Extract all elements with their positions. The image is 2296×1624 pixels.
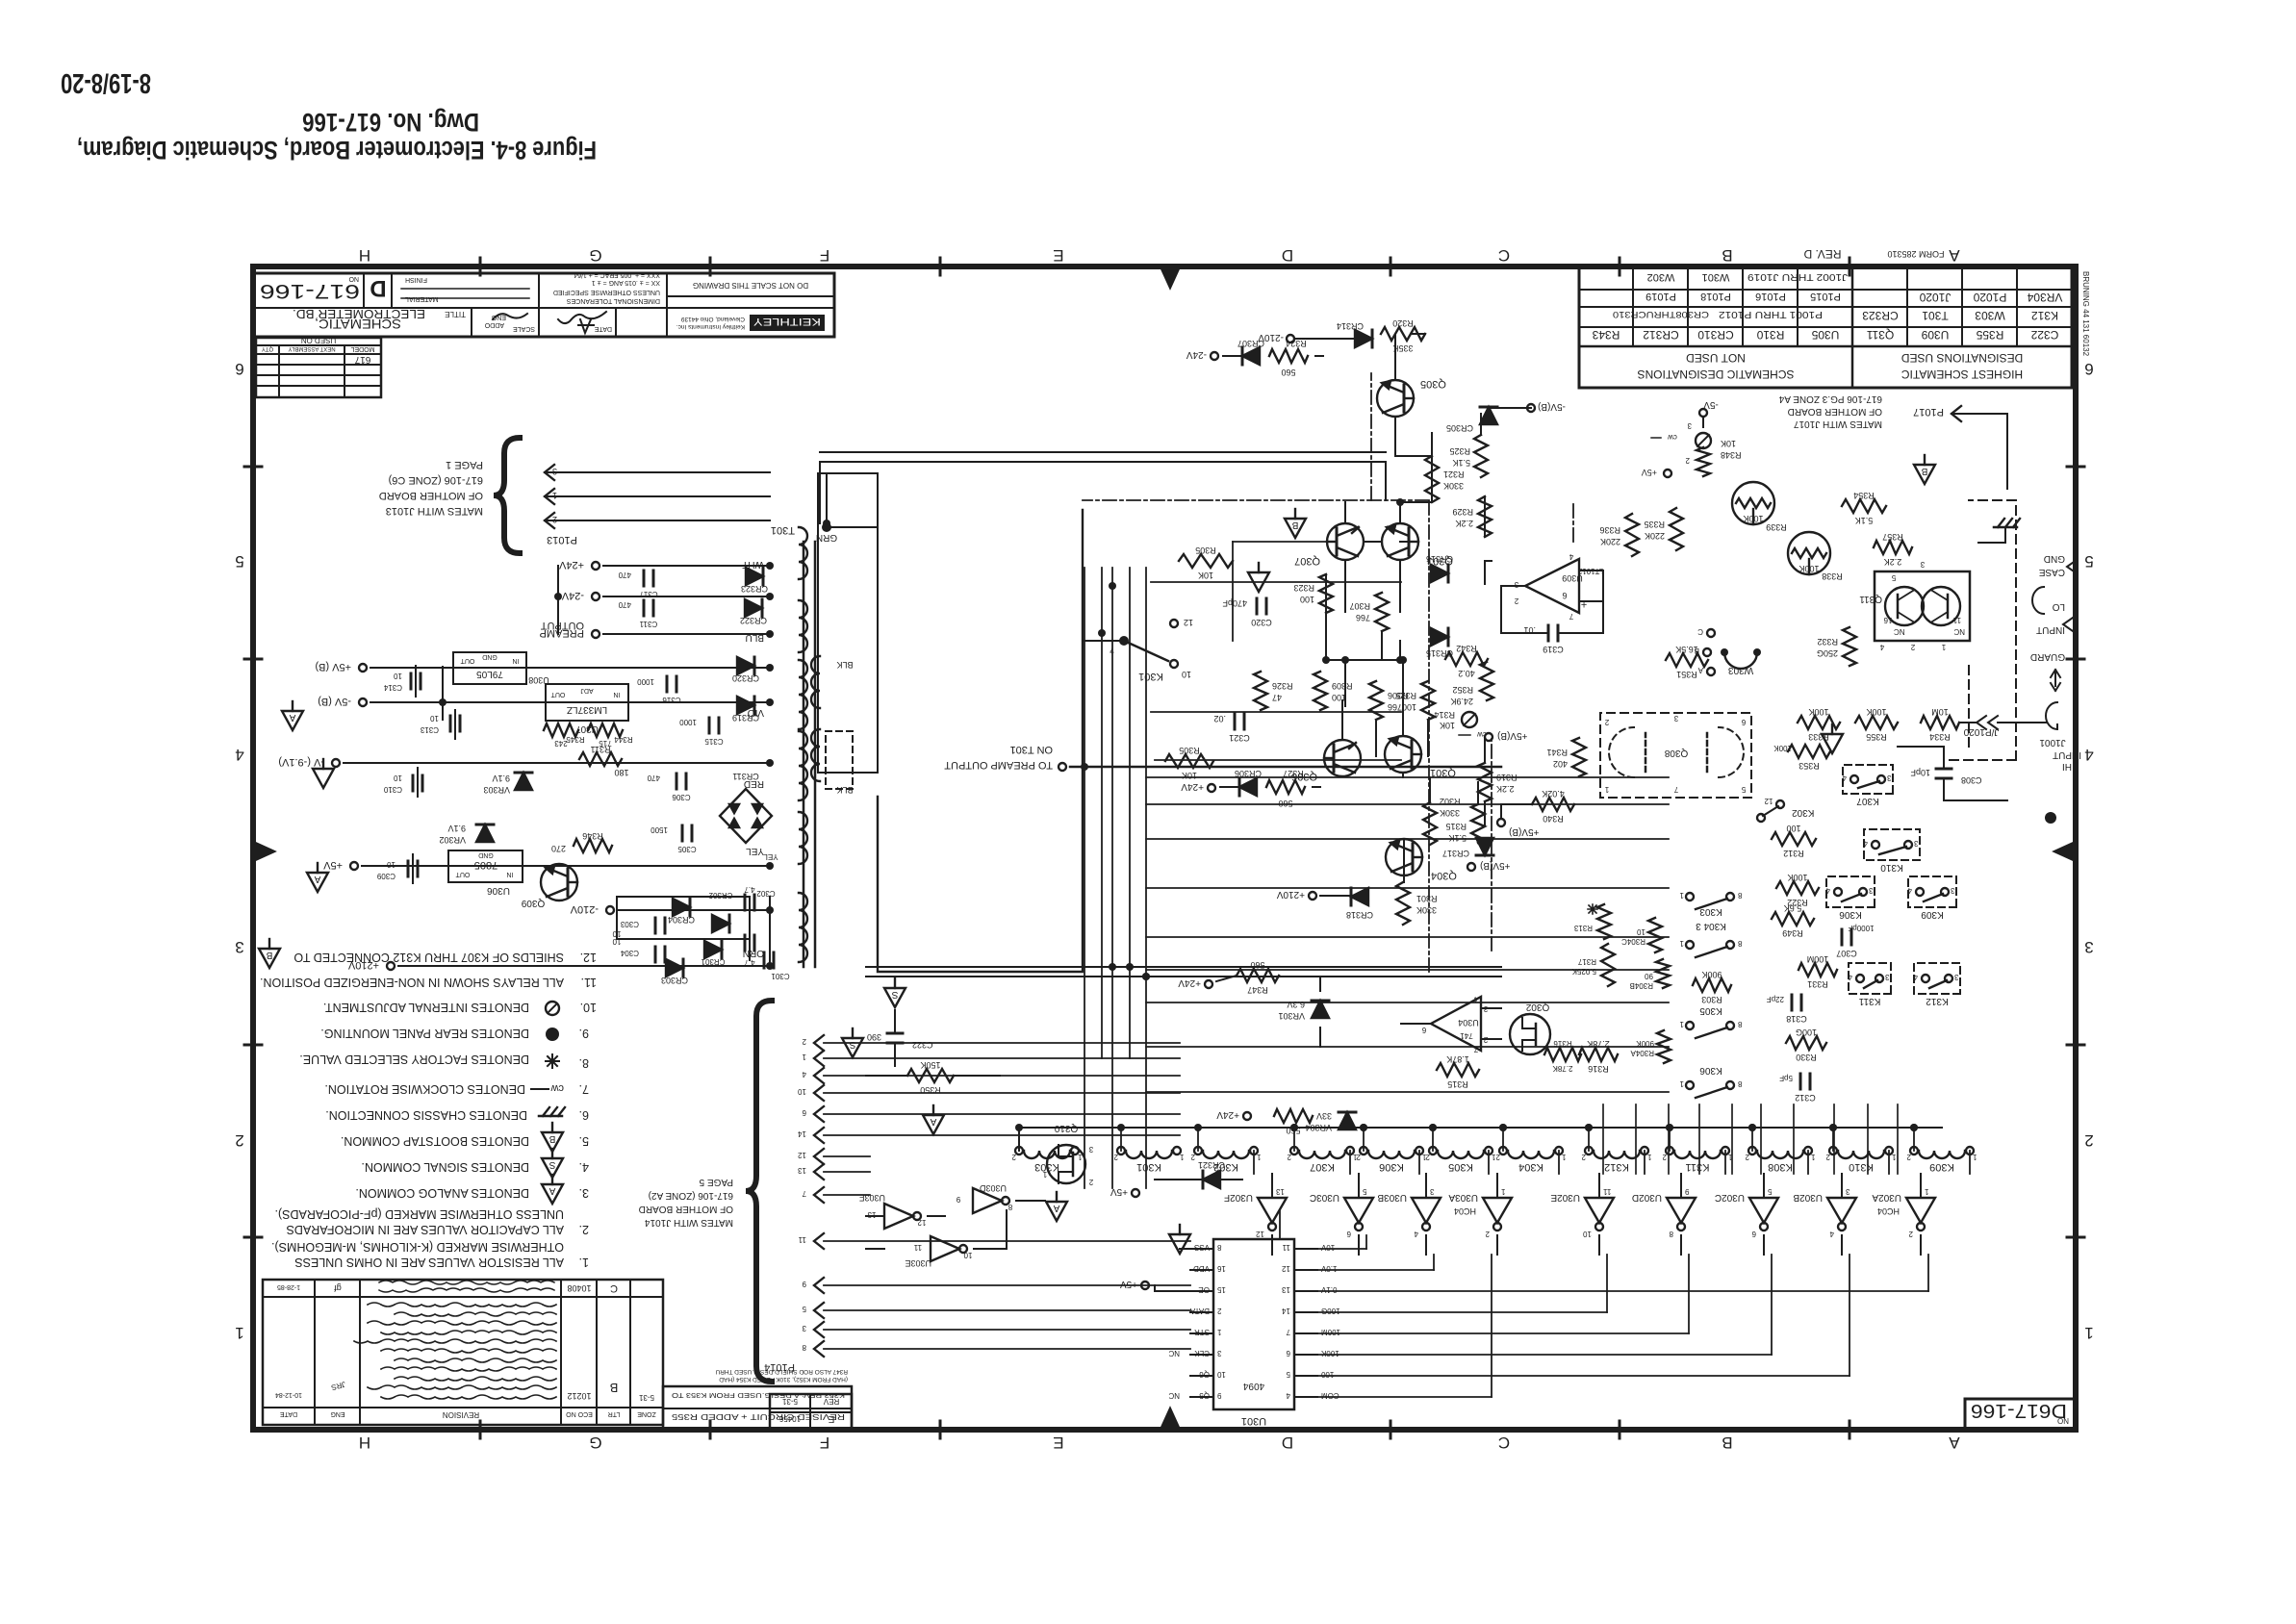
svg-text:OUT: OUT xyxy=(460,657,475,664)
relay contact K307 xyxy=(1843,765,1893,794)
term +5V(B) centre xyxy=(1485,733,1492,741)
svg-text:10K: 10K xyxy=(1721,439,1736,448)
svg-text:gf: gf xyxy=(334,1283,342,1293)
svg-text:10: 10 xyxy=(430,714,439,723)
svg-text:R312: R312 xyxy=(1783,849,1804,858)
resistor R353 xyxy=(1788,745,1830,758)
svg-text:R320: R320 xyxy=(1392,318,1414,328)
logic long wires xyxy=(1317,1396,1492,1398)
svg-text:560: 560 xyxy=(1250,960,1264,970)
svg-text:MATERIAL: MATERIAL xyxy=(405,295,439,302)
resistor R354 xyxy=(1842,499,1886,513)
svg-text:K301: K301 xyxy=(1136,1161,1161,1173)
svg-text:K312: K312 xyxy=(1604,1161,1629,1173)
svg-text:R330: R330 xyxy=(1796,1053,1817,1062)
svg-text:H: H xyxy=(359,1434,370,1452)
U303 wiring xyxy=(974,1248,1007,1250)
svg-text:1.0V: 1.0V xyxy=(1320,1264,1337,1273)
svg-text:5: 5 xyxy=(1286,1370,1290,1379)
svg-text:R348: R348 xyxy=(1721,450,1742,460)
svg-text:741: 741 xyxy=(1460,1031,1473,1040)
svg-text:2: 2 xyxy=(1825,1153,1830,1161)
svg-text:2: 2 xyxy=(1910,643,1915,651)
svg-text:100K: 100K xyxy=(1808,707,1828,717)
svg-text:W303: W303 xyxy=(1975,309,2005,322)
connector P1014 xyxy=(814,1341,824,1357)
svg-text:U306: U306 xyxy=(487,885,510,896)
CR322 CR323 C311 C317 xyxy=(745,599,762,617)
svg-text:OF MOTHER BOARD: OF MOTHER BOARD xyxy=(379,490,483,501)
connector P1013 xyxy=(494,438,520,553)
svg-text:LO: LO xyxy=(2052,601,2065,612)
svg-text:1: 1 xyxy=(1679,1079,1684,1088)
svg-text:NC: NC xyxy=(1953,627,1965,636)
svg-text:DENOTES SIGNAL COMMON.: DENOTES SIGNAL COMMON. xyxy=(361,1160,529,1174)
svg-text:5: 5 xyxy=(2084,552,2093,571)
inverter U302B xyxy=(1827,1198,1856,1223)
svg-text:9: 9 xyxy=(802,1280,806,1288)
range bus horizontals xyxy=(1146,1091,1669,1093)
svg-text:R323: R323 xyxy=(1293,583,1314,593)
svg-text:1: 1 xyxy=(1891,1153,1896,1161)
svg-text:7: 7 xyxy=(1569,612,1573,621)
resistor R307 xyxy=(1375,593,1389,631)
svg-text:ALL CAPACITOR VALUES ARE IN MI: ALL CAPACITOR VALUES ARE IN MICROFARADS xyxy=(286,1223,564,1236)
drawing number box xyxy=(1965,1399,2077,1430)
centre wiring xyxy=(1394,334,1396,380)
svg-text:C304: C304 xyxy=(620,949,639,957)
svg-text:A: A xyxy=(289,712,295,723)
svg-text:100G: 100G xyxy=(1321,1307,1340,1315)
svg-text:ADJ: ADJ xyxy=(580,687,593,694)
transformer shield enclosure xyxy=(818,473,878,773)
resistor R341 xyxy=(1572,738,1586,776)
svg-text:GUARD: GUARD xyxy=(2030,651,2065,662)
svg-text:10V: 10V xyxy=(1320,1243,1335,1252)
svg-text:330K: 330K xyxy=(1416,905,1437,915)
svg-text:9.1V: 9.1V xyxy=(492,774,510,783)
svg-text:2: 2 xyxy=(802,1037,806,1046)
svg-text:CR323: CR323 xyxy=(741,584,768,594)
svg-text:10408: 10408 xyxy=(567,1283,591,1293)
inverter U303A xyxy=(1483,1198,1512,1223)
resistor R357 xyxy=(1874,541,1912,554)
svg-text:VR303: VR303 xyxy=(483,785,510,795)
resistor R326 xyxy=(1254,672,1267,710)
svg-text:SCALE: SCALE xyxy=(513,325,535,332)
diode CR315 xyxy=(1431,628,1448,646)
resistor R313 xyxy=(1597,904,1611,939)
svg-text:1000: 1000 xyxy=(679,718,697,726)
svg-text:5: 5 xyxy=(1741,785,1746,794)
svg-text:OF MOTHER BOARD: OF MOTHER BOARD xyxy=(1788,406,1882,417)
svg-text:617-106 (ZONE A2): 617-106 (ZONE A2) xyxy=(649,1190,733,1201)
svg-text:U303A: U303A xyxy=(1448,1192,1478,1203)
zener VR301 xyxy=(1312,1001,1329,1018)
used-on table xyxy=(256,338,381,397)
svg-text:617: 617 xyxy=(354,354,370,365)
svg-text:R340: R340 xyxy=(1543,814,1564,824)
svg-text:YEL: YEL xyxy=(746,846,764,856)
svg-text:7: 7 xyxy=(1110,645,1114,654)
title block xyxy=(254,273,834,337)
svg-text:ADDO: ADDO xyxy=(484,321,504,328)
resistor R315b xyxy=(1471,804,1485,843)
connector P1014 brace xyxy=(746,1001,772,1382)
svg-text:90: 90 xyxy=(1645,972,1653,980)
svg-text:3: 3 xyxy=(1845,1187,1850,1196)
svg-text:100: 100 xyxy=(1320,1370,1334,1379)
svg-text:TO PREAMP OUTPUT: TO PREAMP OUTPUT xyxy=(944,759,1053,771)
svg-text:R325: R325 xyxy=(1395,691,1416,700)
svg-text:K308: K308 xyxy=(1768,1161,1793,1173)
svg-text:3: 3 xyxy=(1429,1187,1434,1196)
svg-text:13: 13 xyxy=(867,1210,876,1219)
svg-text:P1016: P1016 xyxy=(1755,291,1786,302)
svg-text:Q310: Q310 xyxy=(1054,1123,1078,1133)
svg-text:R310: R310 xyxy=(1756,328,1784,342)
svg-text:766: 766 xyxy=(1388,702,1402,712)
resistor R336 xyxy=(1625,514,1639,556)
svg-text:+5V: +5V xyxy=(1120,1279,1137,1289)
svg-text:KEITHLEY: KEITHLEY xyxy=(753,316,821,327)
svg-text:A: A xyxy=(1697,666,1703,674)
svg-text:470: 470 xyxy=(618,600,631,609)
svg-text:CR310: CR310 xyxy=(1697,328,1734,342)
resistor R351 xyxy=(1666,653,1708,667)
svg-text:CR308THRUCR310: CR308THRUCR310 xyxy=(1613,310,1709,319)
svg-text:10: 10 xyxy=(387,860,395,869)
svg-text:A: A xyxy=(1053,1203,1059,1213)
inverter U302E xyxy=(1585,1198,1614,1223)
svg-text:GRN: GRN xyxy=(816,532,837,543)
svg-text:330K: 330K xyxy=(1443,481,1464,491)
resistor R304C xyxy=(1648,918,1662,952)
svg-text:K311: K311 xyxy=(1686,1161,1710,1173)
svg-text:C309: C309 xyxy=(376,872,395,880)
svg-text:8.: 8. xyxy=(579,1056,589,1070)
U307 LM337 regulator xyxy=(546,684,628,721)
svg-text:16: 16 xyxy=(1883,616,1892,624)
GRN lead xyxy=(822,522,831,532)
coil-to-gate wires xyxy=(1969,1151,1971,1174)
svg-text:1000: 1000 xyxy=(637,677,654,686)
svg-text:1: 1 xyxy=(1491,1153,1495,1161)
svg-text:Q304: Q304 xyxy=(1431,870,1457,881)
svg-text:+5V (B): +5V (B) xyxy=(315,661,351,672)
dual transistor Q311 xyxy=(1875,571,1970,641)
relay contact K302b xyxy=(1776,800,1784,808)
svg-text:5: 5 xyxy=(802,1305,806,1313)
svg-text:1: 1 xyxy=(1679,1020,1684,1028)
svg-text:1: 1 xyxy=(2084,1324,2093,1342)
svg-text:4.: 4. xyxy=(579,1160,589,1174)
resistor 560 vr xyxy=(1274,1109,1313,1123)
svg-text:2: 2 xyxy=(1685,456,1690,465)
svg-text:Q305: Q305 xyxy=(1420,378,1446,390)
svg-text:+210V: +210V xyxy=(347,959,379,971)
svg-text:C320: C320 xyxy=(1251,618,1272,627)
svg-text:7.: 7. xyxy=(579,1082,589,1096)
svg-text:5: 5 xyxy=(1362,1187,1366,1196)
svg-text:12: 12 xyxy=(798,1151,806,1159)
svg-text:6: 6 xyxy=(2084,360,2093,378)
resistor R329 xyxy=(1478,496,1492,537)
svg-text:R357: R357 xyxy=(1882,532,1903,542)
svg-text:1: 1 xyxy=(1810,1153,1815,1161)
common tricom right xyxy=(1914,465,1935,484)
case gnd xyxy=(2067,560,2077,573)
svg-text:C311: C311 xyxy=(639,620,657,628)
svg-text:OF MOTHER BOARD: OF MOTHER BOARD xyxy=(639,1204,733,1214)
capacitor C308 xyxy=(1936,777,1952,780)
svg-text:REVISION: REVISION xyxy=(443,1410,479,1419)
svg-text:10: 10 xyxy=(798,1087,806,1096)
svg-text:F: F xyxy=(820,246,829,265)
svg-text:USED ON: USED ON xyxy=(301,336,337,344)
svg-text:1500: 1500 xyxy=(651,825,668,834)
svg-text:E: E xyxy=(828,1413,834,1424)
C313 C314 xyxy=(459,716,462,731)
resistor R309 xyxy=(1314,672,1327,710)
svg-text:CR320: CR320 xyxy=(732,673,759,683)
svg-text:U302E: U302E xyxy=(1550,1192,1580,1203)
resistor R316 xyxy=(1579,1048,1618,1061)
svg-text:C312: C312 xyxy=(1795,1093,1816,1103)
svg-text:U301: U301 xyxy=(1241,1415,1266,1427)
svg-text:4094: 4094 xyxy=(1242,1381,1264,1391)
svg-text:5.1K: 5.1K xyxy=(1448,833,1467,843)
svg-text:B: B xyxy=(1722,1434,1732,1452)
svg-text:2: 2 xyxy=(1662,1153,1667,1161)
svg-text:H: H xyxy=(359,246,370,265)
svg-text:F: F xyxy=(820,1434,829,1452)
svg-text:A: A xyxy=(1949,1434,1960,1452)
svg-text:8-19/8-20: 8-19/8-20 xyxy=(61,67,151,98)
svg-text:B: B xyxy=(1291,520,1298,530)
svg-text:100M: 100M xyxy=(1807,954,1829,964)
svg-text:9: 9 xyxy=(956,1195,960,1204)
svg-text:6: 6 xyxy=(1751,1230,1756,1238)
svg-text:LTR: LTR xyxy=(608,1410,621,1417)
svg-text:C: C xyxy=(1498,246,1510,265)
svg-text:10: 10 xyxy=(1583,1230,1592,1238)
svg-text:IN: IN xyxy=(507,871,514,877)
svg-text:8: 8 xyxy=(1737,939,1742,948)
svg-text:2: 2 xyxy=(1604,718,1609,726)
svg-text:S: S xyxy=(891,989,898,1000)
svg-text:10K: 10K xyxy=(1198,571,1213,580)
svg-text:K303: K303 xyxy=(1699,906,1722,917)
transistor Q301 xyxy=(1385,736,1421,773)
inverter U303C xyxy=(1344,1198,1373,1223)
svg-text:1: 1 xyxy=(1042,1170,1047,1179)
svg-text:5.1K: 5.1K xyxy=(1855,516,1874,525)
svg-text:NC: NC xyxy=(1168,1349,1180,1358)
svg-text:1: 1 xyxy=(1179,1153,1184,1161)
transistor Q307 xyxy=(1327,523,1364,560)
svg-text:S: S xyxy=(849,1039,855,1050)
svg-text:P1020: P1020 xyxy=(1973,291,2006,304)
svg-text:900K: 900K xyxy=(1701,970,1722,979)
svg-text:C: C xyxy=(610,1282,618,1294)
svg-text:R332: R332 xyxy=(1817,637,1838,647)
svg-text:3: 3 xyxy=(802,1324,806,1332)
svg-text:R351: R351 xyxy=(1676,670,1697,679)
svg-text:NOT USED: NOT USED xyxy=(1686,351,1746,365)
svg-text:ENG: ENG xyxy=(330,1410,344,1417)
svg-text:617-106 PG.3 ZONE A4: 617-106 PG.3 ZONE A4 xyxy=(1778,393,1882,404)
svg-text:-5V: -5V xyxy=(1703,399,1719,410)
svg-text:CR305: CR305 xyxy=(1446,423,1473,433)
svg-text:4: 4 xyxy=(1842,774,1847,782)
switch riser wires xyxy=(1897,1104,1899,1174)
svg-text:cw: cw xyxy=(1668,433,1677,442)
svg-text:4: 4 xyxy=(1848,973,1852,981)
op-amp U304 xyxy=(1431,997,1481,1051)
svg-text:10: 10 xyxy=(963,1251,972,1259)
svg-text:STR: STR xyxy=(1194,1328,1210,1336)
svg-text:7: 7 xyxy=(1286,1328,1290,1336)
resistor R323 xyxy=(1319,574,1333,613)
svg-text:K311: K311 xyxy=(1858,996,1880,1006)
svg-text:6: 6 xyxy=(1421,1026,1426,1034)
svg-text:B: B xyxy=(1722,246,1732,265)
P1014 wires xyxy=(824,1348,1190,1350)
svg-text:R343: R343 xyxy=(1592,328,1620,342)
inverter U302C xyxy=(1749,1198,1778,1223)
svg-text:10212: 10212 xyxy=(567,1391,591,1401)
svg-text:4: 4 xyxy=(235,746,243,764)
svg-text:100K: 100K xyxy=(1787,873,1807,882)
svg-text:J1002 THRU J1019: J1002 THRU J1019 xyxy=(1747,271,1848,282)
svg-text:IN: IN xyxy=(513,657,520,664)
svg-text:2: 2 xyxy=(1485,1230,1490,1238)
svg-text:R331: R331 xyxy=(1807,979,1828,989)
svg-text:Q311: Q311 xyxy=(1866,328,1894,342)
svg-text:4: 4 xyxy=(1913,973,1918,981)
svg-text:U303B: U303B xyxy=(1377,1192,1407,1203)
svg-text:YEL: YEL xyxy=(763,852,778,861)
svg-text:E: E xyxy=(1053,246,1063,265)
svg-text:0.1V: 0.1V xyxy=(1320,1285,1337,1294)
common tricom U301 xyxy=(1169,1234,1190,1254)
svg-text:A: A xyxy=(1949,246,1960,265)
svg-text:MATES WITH J1014: MATES WITH J1014 xyxy=(645,1217,733,1228)
svg-text:9: 9 xyxy=(1216,1391,1221,1400)
svg-text:DENOTES INTERNAL ADJUSTMENT.: DENOTES INTERNAL ADJUSTMENT. xyxy=(323,1001,529,1014)
svg-text:HC04: HC04 xyxy=(1877,1206,1900,1216)
svg-text:P1017: P1017 xyxy=(1913,406,1944,418)
svg-text:4: 4 xyxy=(1907,886,1912,895)
svg-text:CR322: CR322 xyxy=(740,616,767,625)
svg-text:4.02K: 4.02K xyxy=(1542,789,1565,799)
svg-text:220K: 220K xyxy=(1600,537,1620,546)
inverter U303F xyxy=(884,1204,913,1229)
svg-text:(HAD FROM K352), 310K ADDED K: (HAD FROM K352), 310K ADDED K354 (HAD xyxy=(719,1376,848,1383)
resistor R332 xyxy=(1843,627,1856,666)
svg-text:12.: 12. xyxy=(580,951,597,964)
svg-text:2.2K: 2.2K xyxy=(1884,557,1902,567)
range resistor R331 xyxy=(1799,963,1837,977)
svg-text:C: C xyxy=(1498,1434,1510,1452)
svg-text:+24V: +24V xyxy=(1178,977,1201,988)
svg-text:Cleveland, Ohio 44139: Cleveland, Ohio 44139 xyxy=(680,316,745,322)
svg-text:C321: C321 xyxy=(1229,733,1250,743)
svg-text:C322: C322 xyxy=(912,1040,933,1050)
svg-text:R304B: R304B xyxy=(1630,981,1653,990)
svg-text:1: 1 xyxy=(1352,1153,1357,1161)
transformer T301 primary windings xyxy=(811,729,820,781)
svg-text:10.: 10. xyxy=(580,1001,597,1014)
relay contact K312 xyxy=(1914,963,1960,994)
svg-text:+5V(B): +5V(B) xyxy=(1509,826,1539,837)
svg-text:XX = ± .015 ANG = ± 1: XX = ± .015 ANG = ± 1 xyxy=(592,279,660,286)
capacitor C320 xyxy=(1265,598,1268,614)
svg-text:U303C: U303C xyxy=(1310,1192,1339,1203)
svg-text:VR301: VR301 xyxy=(1278,1011,1305,1021)
designations table xyxy=(1579,267,2072,388)
svg-text:R307: R307 xyxy=(1349,601,1370,611)
svg-text:C305: C305 xyxy=(677,845,697,853)
svg-text:REV. D: REV. D xyxy=(1803,247,1841,261)
svg-text:9.: 9. xyxy=(579,1027,589,1040)
svg-text:CR302: CR302 xyxy=(708,891,732,900)
svg-text:R326: R326 xyxy=(1272,681,1293,691)
inverter U303D xyxy=(973,1188,1002,1213)
svg-text:4: 4 xyxy=(1825,886,1830,895)
svg-text:K306: K306 xyxy=(1379,1161,1404,1173)
guard dashed ring xyxy=(2015,500,2017,760)
svg-text:BRUNING 44 131 60132: BRUNING 44 131 60132 xyxy=(2081,271,2090,357)
diode CR317 xyxy=(1476,838,1493,855)
svg-text:11: 11 xyxy=(1952,616,1961,624)
svg-text:REV: REV xyxy=(823,1397,839,1406)
svg-text:2: 2 xyxy=(235,1131,243,1150)
svg-text:14: 14 xyxy=(798,1129,806,1138)
svg-text:T301: T301 xyxy=(771,524,795,536)
svg-text:K310: K310 xyxy=(1849,1161,1874,1173)
svg-text:R342: R342 xyxy=(1456,644,1477,653)
svg-text:DATA: DATA xyxy=(1189,1307,1210,1315)
svg-text:K307: K307 xyxy=(1310,1161,1335,1173)
svg-text:R334: R334 xyxy=(1929,732,1951,742)
svg-text:+210V: +210V xyxy=(1276,889,1305,900)
svg-text:K305: K305 xyxy=(1448,1161,1473,1173)
svg-text:CR304: CR304 xyxy=(668,915,695,925)
svg-text:470pF: 470pF xyxy=(1222,598,1247,608)
svg-text:R347: R347 xyxy=(1247,985,1268,995)
svg-text:DENOTES FACTORY SELECTED VALUE: DENOTES FACTORY SELECTED VALUE. xyxy=(299,1053,529,1066)
svg-text:100: 100 xyxy=(1786,824,1800,833)
capacitor C312 xyxy=(1809,1074,1812,1089)
capacitor C321 xyxy=(1243,714,1246,729)
svg-text:3: 3 xyxy=(1950,886,1954,895)
svg-text:5-31: 5-31 xyxy=(781,1397,798,1406)
svg-text:270: 270 xyxy=(551,844,566,853)
svg-text:5.6K: 5.6K xyxy=(1784,903,1802,913)
svg-text:5pF: 5pF xyxy=(1779,1074,1793,1082)
op-amp U309 xyxy=(1525,559,1579,613)
svg-text:B: B xyxy=(548,1133,555,1144)
svg-text:DENOTES CHASSIS CONNECTION.: DENOTES CHASSIS CONNECTION. xyxy=(325,1108,527,1122)
resistor R347 xyxy=(1237,969,1279,982)
svg-text:100G: 100G xyxy=(1796,1028,1817,1037)
svg-text:P1015: P1015 xyxy=(1810,291,1841,302)
svg-text:5.025K: 5.025K xyxy=(1571,967,1596,976)
svg-text:MATES WITH J1017: MATES WITH J1017 xyxy=(1794,419,1882,429)
resistor R306 xyxy=(1369,681,1383,720)
